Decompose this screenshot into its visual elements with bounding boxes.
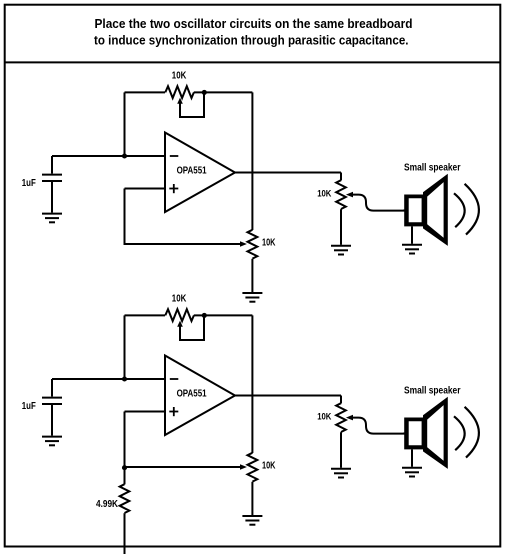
svg-text:OPA551: OPA551 xyxy=(177,166,207,177)
svg-text:4.99K: 4.99K xyxy=(96,499,118,510)
svg-text:10K: 10K xyxy=(262,238,276,249)
svg-text:to induce synchronization thro: to induce synchronization through parasi… xyxy=(94,33,409,48)
svg-text:Small speaker: Small speaker xyxy=(404,162,461,173)
svg-text:Place the two oscillator circu: Place the two oscillator circuits on the… xyxy=(95,16,413,31)
svg-text:10K: 10K xyxy=(317,188,331,198)
svg-text:1uF: 1uF xyxy=(22,178,36,189)
svg-text:10K: 10K xyxy=(172,70,187,81)
